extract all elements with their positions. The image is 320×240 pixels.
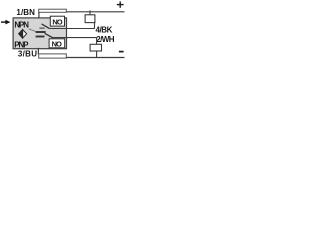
- wire 1/BN vertical into sensor box: [38, 12, 40, 20]
- svg-text:1/BN: 1/BN: [16, 8, 35, 17]
- sensor box: [13, 18, 66, 49]
- svg-text:2/WH: 2/WH: [96, 35, 114, 44]
- proximity sensor symbol (diamond, left half filled): [19, 29, 27, 39]
- NO label box top: [50, 16, 64, 26]
- svg-text:NO: NO: [52, 18, 62, 27]
- internal wire bar2 (bottom contact terminal): [36, 36, 45, 38]
- wire top rail to +: [66, 11, 125, 13]
- + supply label: [117, 1, 124, 7]
- load L2 wire down from output: [96, 38, 98, 45]
- load L1 wire down to output: [94, 22, 96, 28]
- wire diamond to contacts: [29, 29, 36, 32]
- - supply label: [119, 51, 124, 53]
- contact NO top: input wire: [39, 27, 44, 29]
- load L1 stub from + rail: [89, 10, 91, 15]
- NO label box bottom: [49, 39, 65, 48]
- actuation arrow: [1, 20, 10, 25]
- load L1 box: [85, 15, 95, 23]
- svg-text:3/BU: 3/BU: [18, 49, 37, 58]
- svg-text:4/BK: 4/BK: [96, 25, 113, 34]
- svg-text:PNP: PNP: [14, 40, 28, 49]
- terminal bar 1/BN: [39, 9, 67, 12]
- contact NO bottom: blade: [45, 33, 53, 37]
- wire bottom rail to -: [66, 57, 124, 59]
- terminal bar 3/BU: [39, 54, 67, 58]
- contact NO top: output wire to load: [49, 28, 95, 30]
- svg-text:NPN: NPN: [14, 21, 29, 30]
- svg-text:NO: NO: [52, 40, 62, 49]
- internal wire bar1 (top contact terminal): [36, 31, 46, 33]
- wire 3/BU vertical from sensor box: [37, 48, 39, 55]
- load L2 box: [90, 44, 101, 51]
- load L2 stub to - rail: [96, 51, 98, 58]
- contact NO top: blade: [42, 24, 50, 29]
- contact NO bottom: output wire to load: [52, 37, 97, 39]
